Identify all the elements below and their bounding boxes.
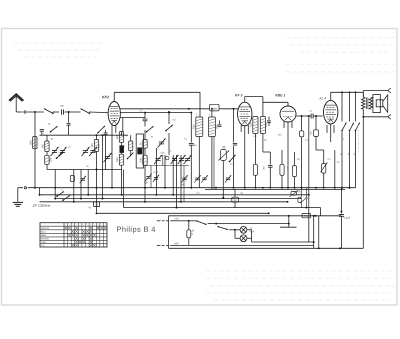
battery lead positive dashed (157, 220, 161, 222)
antenna (9, 94, 24, 101)
svg-text:VR: VR (297, 191, 301, 194)
wire negative lead (173, 244, 314, 246)
battery lead negative dashed (157, 244, 161, 246)
trimmer capacitor C15 (146, 176, 150, 178)
wire B1 to B4 elbow (54, 170, 56, 199)
output transformer primary coil (362, 97, 366, 109)
wire vertical to outer bottom (313, 216, 315, 249)
svg-text:KL 4: KL 4 (319, 97, 326, 101)
waveband switch table (40, 223, 107, 247)
bus B4 (55, 198, 301, 200)
switch S12 on bus (57, 191, 64, 196)
svg-text:M-Welle: M-Welle (41, 238, 50, 241)
resistor R5 grid (301, 116, 303, 131)
svg-text:150: 150 (91, 143, 94, 148)
wire IFT1 La down (198, 137, 200, 188)
wire (318, 216, 320, 249)
KF3 anode to top (244, 97, 246, 103)
IFT1 coil La G30 (196, 117, 203, 137)
wire (46, 135, 48, 141)
svg-text:150: 150 (42, 144, 45, 149)
wire antenna to switch S1 (17, 111, 23, 113)
connector plug (24, 111, 26, 113)
wire (305, 188, 307, 208)
resistor R14 1.5 kOhm (94, 202, 100, 207)
short feed line (280, 226, 297, 228)
wire (183, 166, 185, 202)
capacitor C8 cathode (104, 132, 108, 134)
svg-text:G30: G30 (193, 124, 196, 129)
svg-text:Antenne: Antenne (41, 227, 50, 230)
wire (229, 229, 240, 231)
volume potentiometer R7 (323, 150, 325, 164)
wire (168, 133, 170, 155)
IFT2 coil Lb G30 (260, 117, 265, 134)
KK2 pin branch down to L5 unit (122, 118, 124, 132)
variable capacitor C11 (172, 158, 177, 160)
capacitor C19 (219, 121, 221, 125)
wire (172, 155, 174, 195)
switch S8 (230, 155, 236, 162)
svg-text:v: v (105, 224, 106, 227)
wire IFT2 Lb down (262, 134, 264, 153)
svg-text:4-20: 4-20 (153, 171, 158, 174)
screen feed wires (341, 92, 343, 121)
KL4 pins (326, 125, 328, 133)
svg-text:v: v (90, 224, 91, 227)
variable capacitor C5 (83, 150, 88, 152)
KK2 grid line lower (120, 117, 146, 119)
variable capacitor C12 (179, 158, 184, 160)
svg-text:ZF 128 kHz: ZF 128 kHz (32, 204, 51, 208)
svg-text:v: v (87, 224, 88, 227)
svg-text:v: v (65, 224, 66, 227)
wire to KK2 grid (89, 111, 108, 114)
switch S3 (51, 126, 58, 132)
KF3 pins (240, 125, 242, 132)
svg-text:2M: 2M (310, 131, 313, 134)
coil L5 300 (119, 132, 123, 143)
coil L6 (129, 141, 133, 151)
resistor R4b pill (294, 152, 296, 166)
coil L5b 330 (119, 154, 123, 165)
wire L5 branch down (121, 170, 123, 195)
wire (87, 170, 89, 195)
wire lamps to right (247, 229, 252, 231)
outer box bottom (169, 247, 364, 249)
svg-text:+2V: +2V (174, 218, 179, 221)
svg-text:v: v (80, 224, 81, 227)
junction dots on buses (34, 187, 36, 189)
bus B7 (97, 212, 269, 214)
svg-text:330: 330 (140, 157, 143, 162)
resistor R11 pill (298, 197, 301, 202)
variable capacitor C13 (185, 158, 190, 160)
capacitor C22 (269, 152, 271, 165)
variable capacitor C6b (105, 156, 110, 158)
coil L8 330 (143, 155, 147, 165)
switch S9 (342, 123, 346, 131)
KK2 anode pin to top line (113, 92, 115, 101)
KBE1 pins down (283, 121, 285, 128)
wire (208, 223, 217, 225)
switch S7 (166, 125, 173, 131)
dial lamp La1 (240, 226, 247, 233)
coil L4 150 (94, 140, 98, 152)
wires to bus (341, 132, 343, 189)
svg-text:v: v (72, 224, 73, 227)
switch S4 (57, 152, 64, 158)
variable capacitor C6 (90, 150, 95, 152)
IFT2 coil La G30 (253, 117, 258, 134)
trimmer capacitor C16 (154, 177, 158, 179)
svg-text:NSF: NSF (174, 242, 179, 245)
wire (144, 130, 146, 140)
wire (73, 170, 75, 202)
speaker magnet (376, 100, 383, 107)
resistor R10 with tap arrow (291, 192, 297, 196)
svg-text:v: v (94, 224, 95, 227)
bus B8 (169, 215, 342, 217)
svg-text:Kurz: Kurz (41, 231, 46, 234)
wire node A1 down to ground bus (34, 112, 36, 188)
padder trimmer circle (165, 156, 169, 160)
resistor R6 (315, 116, 317, 130)
osc rail (145, 170, 189, 172)
svg-text:0,1μF: 0,1μF (344, 217, 351, 220)
resistor R8 50 (232, 197, 239, 202)
svg-text:G30: G30 (249, 122, 252, 127)
wire (301, 188, 303, 198)
potentiometer R2 30 (220, 150, 226, 161)
capacitor C20 (233, 108, 235, 110)
wire (176, 155, 178, 208)
KBE1 grid pin wire from IFT2 (287, 102, 289, 106)
wire (68, 112, 70, 123)
wire inner box bottom (252, 241, 314, 243)
switch S13 on bus (63, 195, 70, 200)
switch S14 on-off (197, 221, 207, 225)
speaker voice coil frame (373, 95, 380, 113)
ganged switch link dashed (357, 125, 359, 152)
svg-text:Ω: Ω (191, 233, 193, 236)
coil L2 150 (45, 141, 49, 152)
capacitor C2 on L1 column (40, 129, 44, 131)
outer box left edge (168, 216, 170, 249)
variable capacitor C10a osc (159, 141, 164, 143)
wire (164, 155, 166, 188)
switch S1 wave band (44, 109, 53, 114)
trimmer capacitor C7 (81, 178, 85, 180)
KL4 anode to top line (330, 92, 332, 100)
capacitor C1 antenna series (61, 109, 63, 114)
variable capacitor C4 tuning (60, 150, 65, 152)
svg-text:Mittel: Mittel (41, 234, 47, 237)
osc section bottom rail (145, 165, 189, 167)
resistor R1 padding (70, 175, 74, 181)
switch S15 lamp (218, 227, 228, 230)
capacitor C21 (268, 117, 270, 121)
coil L3 330 (45, 155, 49, 164)
wire (156, 148, 158, 195)
KK2 heater pins (111, 125, 113, 188)
speaker top lead with arrow (363, 90, 387, 92)
top line KK2 anode to IF transformer 1 (114, 91, 200, 93)
svg-text:v: v (101, 224, 102, 227)
capacitor C31 coupling series (310, 114, 312, 119)
wire column x=102.5 (102, 135, 104, 198)
wire (162, 155, 164, 166)
trimmer capacitor C29 (202, 177, 206, 179)
wire (150, 166, 152, 188)
capacitor C27 0.1uF (340, 211, 342, 213)
wire (96, 170, 98, 213)
switch S10 (350, 123, 354, 131)
bus B2 (205, 188, 345, 190)
svg-text:1M: 1M (296, 158, 299, 161)
svg-text:G30: G30 (265, 122, 268, 127)
wire grid cap line through KK2 (120, 112, 191, 114)
wire lamp branch (234, 230, 236, 239)
IF link capacitor 1945 (210, 104, 219, 111)
transformer core (366, 98, 368, 110)
ground (17, 188, 19, 202)
output transformer secondary coil (369, 97, 373, 109)
wire IFT1 Lb top (211, 109, 213, 117)
switch S3b near KK2 (98, 126, 105, 133)
wire B1 to B3 elbow (39, 188, 41, 195)
grid line continues to KF3 (219, 108, 239, 110)
top line to output transformer (331, 91, 364, 93)
wire IFT2 down a (254, 134, 256, 165)
wire (173, 220, 189, 222)
switch S6 (147, 126, 154, 132)
svg-text:2M: 2M (263, 166, 266, 169)
svg-text:740: 740 (304, 215, 309, 218)
svg-text:T.A.: T.A. (41, 244, 45, 247)
transformer primary bottom down long wire (362, 109, 364, 248)
node A1 (34, 111, 36, 113)
variable capacitor C10 osc (155, 158, 160, 160)
wire (80, 170, 82, 199)
wire (180, 155, 182, 202)
switch S11 (355, 123, 359, 131)
svg-text:Philips B 4: Philips B 4 (116, 225, 155, 234)
wire (213, 137, 215, 190)
trimmer capacitor C30 (226, 177, 230, 179)
bus B5 (40, 201, 288, 203)
wire KBE feed (288, 216, 290, 224)
wire (65, 111, 81, 113)
switch S2 wave band (81, 109, 90, 114)
wire L5 unit to B6 (123, 170, 125, 208)
dial lamp La2 (240, 235, 247, 242)
svg-text:330: 330 (116, 157, 119, 162)
capacitor C2b (67, 123, 71, 125)
coil L5 core (120, 146, 124, 153)
svg-text:kΩ: kΩ (88, 206, 91, 209)
svg-text:0,1A: 0,1A (249, 230, 254, 233)
svg-text:KK2: KK2 (102, 95, 109, 99)
svg-text:v: v (83, 224, 84, 227)
svg-text:v: v (98, 224, 99, 227)
resistor R3 1M (253, 164, 257, 175)
IF transformer T1 frame (136, 134, 143, 168)
wire top of L5 (100, 134, 128, 136)
bus B3 (40, 194, 309, 196)
capacitor C14 (190, 113, 192, 143)
svg-text:KF 3: KF 3 (235, 93, 242, 97)
KK2 grid line upper (120, 108, 210, 110)
svg-text:330: 330 (49, 157, 52, 162)
IF transformer T1 core (138, 148, 143, 154)
ground bus B1 (18, 187, 23, 189)
table cross marks (64, 227, 67, 230)
rail left block top (40, 134, 100, 136)
trimmer capacitor C17 (182, 177, 186, 179)
faint reverse-side ghost text rows (286, 37, 395, 39)
resistor R9 740 (302, 213, 311, 217)
variable capacitor C3 tuning (52, 150, 57, 152)
svg-text:500: 500 (29, 140, 32, 145)
antenna coil L1 500 (33, 137, 37, 149)
speaker bottom lead with arrow (363, 116, 387, 118)
wire (53, 111, 60, 113)
wire KK2 right column (121, 188, 123, 190)
coil L7 30 (143, 140, 147, 149)
resistor R4 pill (281, 150, 283, 164)
svg-text:v: v (76, 224, 77, 227)
bus B6 (124, 207, 321, 209)
svg-text:Lang: Lang (41, 241, 47, 244)
wire (222, 161, 224, 198)
wire (334, 150, 336, 188)
IFT1 coil Lb G30 (208, 117, 215, 137)
switch S5 (128, 153, 134, 159)
wire (133, 109, 135, 135)
capacitor C23 drop wire (308, 115, 310, 117)
wire (144, 172, 146, 202)
svg-text:v: v (69, 224, 70, 227)
svg-text:KBE 1: KBE 1 (275, 93, 285, 97)
wire IFT1 Lb down (211, 137, 213, 190)
resistor R13 shunt (188, 221, 190, 230)
KBE1 anode line to KL4 (296, 115, 311, 117)
svg-text:1945: 1945 (211, 108, 217, 111)
speaker cone (383, 95, 388, 113)
rail left block bottom (47, 169, 100, 171)
trimmer capacitor C28 (195, 177, 199, 179)
